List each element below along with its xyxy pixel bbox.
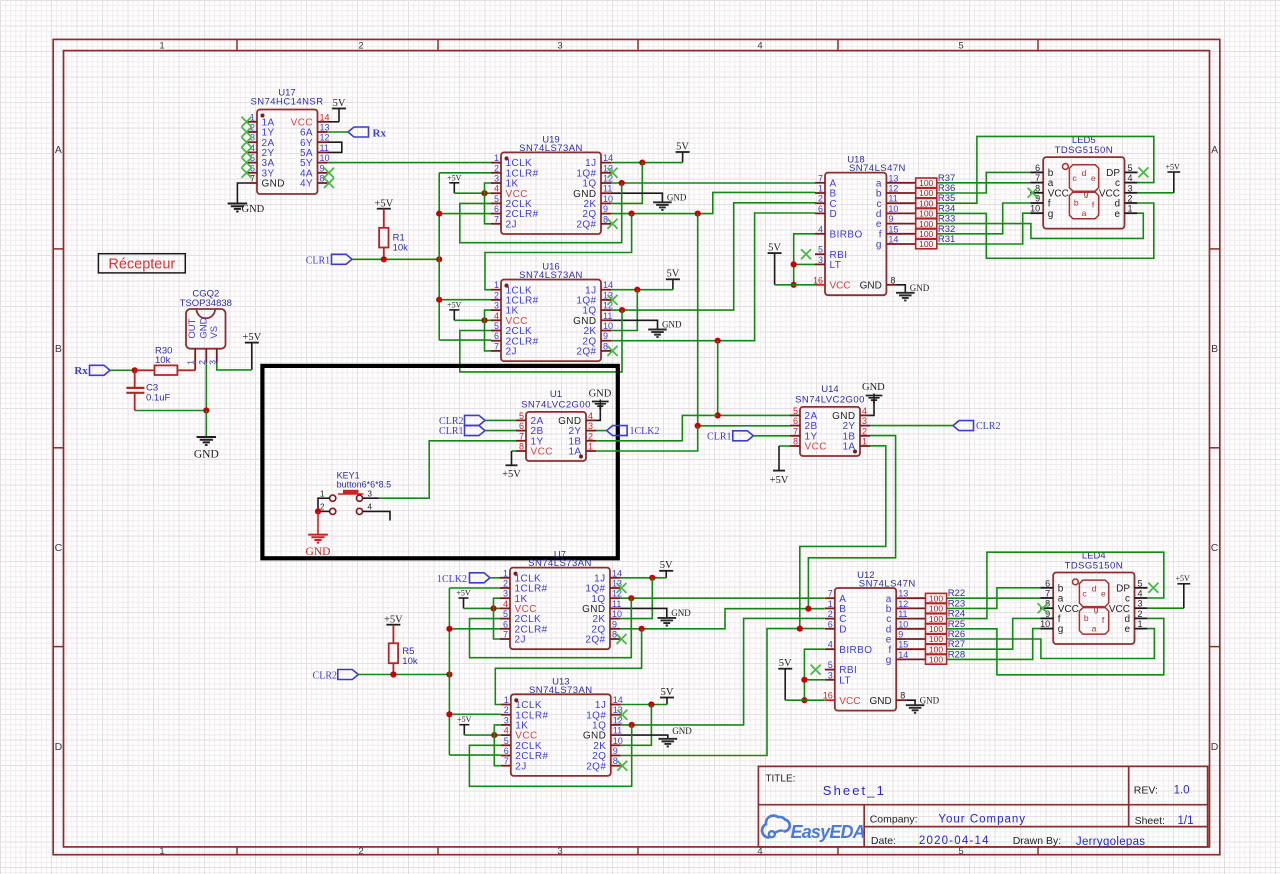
svg-text:10: 10 [1040,619,1050,629]
svg-text:GND: GND [860,280,882,291]
svg-text:6: 6 [818,204,823,214]
svg-text:14: 14 [888,235,898,245]
svg-text:Jerrygolepas: Jerrygolepas [1076,836,1145,848]
GND power flag U13 [658,726,692,746]
wire U18 BIRBO tie [794,234,815,285]
svg-text:5V: 5V [768,242,781,253]
svg-text:1/1: 1/1 [1178,815,1194,827]
junction U19 1Q [619,180,625,186]
no-connect X LED4 pin8 [1038,603,1048,613]
svg-text:10: 10 [612,609,622,619]
svg-text:3: 3 [504,715,509,725]
svg-text:Sheet:: Sheet: [1135,815,1165,827]
svg-text:15: 15 [898,640,908,650]
svg-text:0.1uF: 0.1uF [146,393,170,404]
wire U12 BIRBO tie [804,649,824,700]
svg-text:D: D [1211,741,1219,753]
svg-text:GND: GND [672,726,692,736]
svg-text:button6*6*8.5: button6*6*8.5 [337,480,392,490]
svg-text:SN74LVC2G00: SN74LVC2G00 [521,399,591,410]
junction U19 1J/2K [639,160,645,166]
svg-text:+5V: +5V [1175,574,1190,583]
svg-text:GND: GND [910,283,930,293]
svg-text:7: 7 [503,630,508,640]
svg-text:3: 3 [1138,599,1143,609]
svg-text:+5V: +5V [384,614,403,625]
svg-text:4: 4 [503,599,508,609]
IC U14 SN74LVC2G00 [790,384,870,456]
wire CLR1 to U19 pin2 [439,172,491,174]
wire segment c (R35-LED5) [937,136,1154,203]
wire segment e (R26-LED4) [947,629,1155,659]
svg-text:10: 10 [898,619,908,629]
wire segment e (R33-LED5) [937,213,1144,238]
wire KEY1 pin3 stub [363,497,379,499]
svg-text:Your Company: Your Company [938,813,1026,825]
no-connect X U7 pin 8 [617,634,627,644]
wire U18 VCC to 5V [775,284,815,286]
svg-text:1: 1 [828,599,833,609]
svg-text:3: 3 [862,416,867,426]
wire U13 1J to 5V [621,704,667,706]
svg-text:100: 100 [919,188,933,198]
svg-text:11: 11 [612,599,621,609]
svg-text:+5V: +5V [447,173,462,182]
svg-text:+5V: +5V [1165,162,1180,171]
wire CLR1 port to U1 pin6 [485,430,516,432]
wire segment b (R36-LED5) [937,172,1030,193]
svg-text:100: 100 [929,604,943,614]
svg-text:LT: LT [839,675,851,686]
svg-text:100: 100 [919,219,933,229]
junction U12 B [805,606,811,612]
svg-text:11: 11 [888,194,897,204]
svg-text:2: 2 [1138,609,1143,619]
port CLR1 (to U1 2B) [439,426,485,438]
svg-text:Company:: Company: [870,813,918,825]
svg-text:5: 5 [818,245,823,255]
svg-text:d: d [1092,584,1097,594]
svg-text:EasyEDA: EasyEDA [791,822,865,842]
wire U16 1J to 2K tie [611,290,637,331]
wire U13 2Q to U12 D [621,629,825,756]
IC U19 SN74LS73AN [491,134,613,234]
svg-text:1: 1 [818,184,823,194]
wire 1CLK2 port to U7 pin1 [490,577,500,579]
svg-text:BIRBO: BIRBO [839,645,872,656]
wire to U1 1A [596,426,698,451]
wire U12 GND pin8 [906,700,915,705]
svg-text:B: B [1211,343,1218,355]
svg-text:GND: GND [589,389,612,400]
junction KEY1 pin2 [315,508,321,514]
junction U12 LT [801,677,807,683]
IC U7 SN74LS73AN [500,550,622,650]
svg-text:VS: VS [209,326,220,339]
svg-text:5V: 5V [666,269,679,280]
wire junction to GND flag [205,411,207,438]
svg-text:2Q#: 2Q# [585,635,605,646]
svg-text:5V: 5V [676,141,689,152]
svg-text:7: 7 [1035,173,1040,183]
svg-text:100: 100 [929,634,943,644]
svg-text:CLR1: CLR1 [306,255,330,266]
wire +5V to VCC [464,734,501,736]
junction VCC [481,190,487,196]
junction U19 2Q a [629,211,635,217]
GND power flag U14 [862,382,885,402]
junction U18 VCC [791,282,797,288]
svg-text:4: 4 [757,41,762,52]
svg-text:d: d [1082,168,1087,178]
junction VCC [490,605,496,611]
IC U17 SN74HC14NSR [247,88,330,195]
svg-text:9: 9 [612,619,617,629]
wire U18 LT [794,263,815,265]
GND power flag U1 [589,389,612,409]
svg-text:6: 6 [494,204,499,214]
svg-text:6: 6 [1035,163,1040,173]
junction U7 1J/2K [649,575,655,581]
svg-text:9: 9 [603,331,608,341]
svg-text:Sheet_1: Sheet_1 [823,783,886,798]
no-connect X LED5 pin5 [1138,167,1148,177]
svg-text:1: 1 [494,153,499,163]
svg-text:U1: U1 [550,389,562,400]
svg-text:11: 11 [898,609,907,619]
port CLR1 (left) [306,254,352,266]
resistor R1 10k [379,209,408,260]
wire U1 pin4 to GND [596,407,600,421]
svg-text:Drawn By:: Drawn By: [1013,835,1061,847]
svg-text:6: 6 [494,331,499,341]
+5V power flag [447,300,462,320]
svg-text:1: 1 [320,490,325,499]
svg-text:VCC: VCC [531,447,553,458]
wire segment a (R22-LED4) [947,597,1041,599]
svg-text:7: 7 [828,589,833,599]
svg-text:c: c [1072,173,1077,183]
wire CLR1 row [352,258,439,260]
IC U13 SN74LS73AN [501,676,623,776]
svg-text:3: 3 [1128,183,1133,193]
svg-text:10k: 10k [155,355,171,366]
svg-text:GND: GND [862,382,885,393]
svg-text:e: e [1114,209,1120,220]
wire U7 2Q to U13 1CLK [495,629,641,705]
no-connect X U17 pin 2 [242,127,252,137]
junction VCC [481,317,487,323]
svg-text:3: 3 [503,589,508,599]
wire U18 GND pin8 [896,285,905,293]
no-connect X U13 pin 8 [617,761,627,771]
svg-text:6: 6 [828,619,833,629]
svg-text:GND: GND [671,608,691,618]
junction U16 2Q [715,338,721,344]
svg-text:Rx: Rx [74,365,88,377]
resistor R5 10k [389,625,418,675]
wire CLR1 net vertical [438,173,440,340]
port CLR1 (to U14 1Y) [707,431,753,443]
svg-text:g: g [1058,624,1064,635]
resistor R37 100 [896,173,955,188]
svg-text:GND: GND [242,204,265,215]
svg-text:1.0: 1.0 [1174,785,1190,797]
junction U18 LT [791,261,797,267]
GND power flag U12 [906,695,940,712]
svg-text:+5V: +5V [457,715,472,724]
+5V power flag above R5 [384,614,403,625]
junction CLR1 vertical [436,256,442,262]
svg-text:3: 3 [557,41,562,52]
EasyEDA logo [762,816,865,842]
svg-text:8: 8 [900,691,905,701]
svg-text:U14: U14 [821,384,838,395]
IC U12 SN74LS47N [823,570,916,711]
svg-text:4: 4 [818,224,823,234]
+5V power flag LED4 [1175,574,1190,608]
annotation box Recepteur [98,254,185,273]
svg-text:2Q#: 2Q# [576,219,596,230]
wire U17 pin10 to U19 pin1 [328,162,492,164]
svg-text:b: b [1074,198,1079,208]
svg-text:13: 13 [898,589,908,599]
svg-text:7: 7 [793,426,798,436]
svg-text:11: 11 [320,143,329,153]
junction U13 1Q [629,722,635,728]
no-connect X U17 pin 6 [242,168,252,178]
svg-text:3: 3 [818,255,823,265]
wire U17 pin7 to GND [237,183,247,204]
GND power flag U17 [228,204,265,216]
wire CLR1 to U16 pin2 [439,299,491,301]
svg-text:14: 14 [603,280,613,290]
resistor R28 100 [906,649,965,664]
title block [758,766,1207,848]
+5V power flag U1 [502,451,521,480]
svg-text:2020-04-14: 2020-04-14 [919,835,990,847]
wire LED5 VCC to +5V [1138,192,1174,194]
svg-text:SN74LVC2G00: SN74LVC2G00 [795,394,865,405]
junction U7 2Q [639,626,645,632]
junction CLR2/U13 pin2 [446,711,452,717]
svg-text:100: 100 [919,239,933,249]
wire segment g (R31-LED5) [937,213,1030,244]
svg-text:g: g [1094,604,1099,614]
svg-text:b: b [1084,613,1089,623]
IC CGQ2 TSOP34838 [180,288,232,364]
resistor R25 100 [906,619,965,634]
svg-text:B: B [55,343,62,355]
svg-text:BIRBO: BIRBO [830,229,863,240]
svg-text:A: A [1211,144,1218,156]
junction CLR2/U7 pin6 [446,626,452,632]
junction U7 1Q [628,595,634,601]
resistor R33 100 [896,214,955,229]
svg-text:8: 8 [890,275,895,285]
wire +5V to VCC [464,607,501,609]
svg-text:GND: GND [662,320,682,330]
svg-text:4: 4 [1128,173,1133,183]
wire U19 2Q down to U1/U14 [697,214,699,426]
svg-text:REV:: REV: [1134,785,1158,797]
wire U19 1J to 2K tie [611,163,642,204]
svg-text:GND: GND [262,179,285,190]
svg-text:1: 1 [159,41,164,52]
svg-text:2: 2 [358,41,363,52]
svg-text:CLR1: CLR1 [439,426,463,437]
svg-text:+5V: +5V [456,589,471,598]
junction R5/CLR2 [390,671,396,677]
no-connect X U17 pin 9 [324,168,334,178]
wire U13 1J to 2K tie [621,705,652,746]
svg-text:2J: 2J [515,635,526,646]
5V power flag U12 [778,658,792,700]
wire CLR2 to U7 pin6 [449,628,500,630]
svg-text:2J: 2J [506,347,517,358]
wire CLR2 port to U1 pin5 [485,419,516,421]
svg-text:VCC: VCC [830,280,851,291]
5V power flag at U17 [332,98,346,122]
junction U16 1J/2K [634,287,640,293]
svg-text:14: 14 [612,568,622,578]
port CLR2 (bottom left) [313,670,359,682]
resistor R22 100 [906,588,965,603]
svg-text:10: 10 [888,204,898,214]
svg-text:g: g [1048,209,1054,220]
no-connect X U13 pin 13 [617,710,627,720]
svg-text:7: 7 [494,214,499,224]
wire Rx to junction [110,369,143,371]
wire U16 GND pin11 [611,320,658,329]
svg-text:+5V: +5V [242,332,261,343]
wire U17 pin13 to Rx [328,131,349,133]
svg-text:GND: GND [306,546,331,558]
svg-text:2Q#: 2Q# [576,347,596,358]
svg-text:CLR2: CLR2 [976,421,1000,432]
svg-text:1: 1 [588,442,593,452]
svg-text:TITLE:: TITLE: [765,773,795,784]
wire U19 VCC tie 1K/2J [485,183,492,224]
svg-text:Récepteur: Récepteur [108,257,175,273]
svg-text:3: 3 [494,174,499,184]
svg-text:14: 14 [898,650,908,660]
svg-text:1A: 1A [568,447,581,458]
svg-text:100: 100 [919,209,933,219]
svg-text:5V: 5V [661,687,674,698]
svg-text:2Q#: 2Q# [586,761,606,772]
wire U19 2Q to U16 1CLK [485,214,632,290]
svg-text:6: 6 [793,416,798,426]
wire +5V to VCC [454,192,491,194]
svg-text:+5V: +5V [374,198,393,209]
resistor R31 100 [896,234,955,249]
resistor R32 100 [896,224,955,239]
svg-text:13: 13 [320,123,330,133]
svg-text:2: 2 [588,431,593,441]
wire U14 pin4 to GND [870,401,874,416]
wire segment f (R32-LED5) [937,203,1030,234]
wire U7 GND pin11 [620,608,667,618]
wire U19 1J to 5V [611,162,683,164]
no-connect X U12 RBI [811,665,821,675]
svg-text:2: 2 [494,163,499,173]
svg-text:LT: LT [830,260,842,271]
svg-text:7: 7 [519,431,524,441]
svg-text:e: e [1124,624,1130,635]
junction CLR2 vertical [446,671,452,677]
5V power flag U19 [676,141,690,162]
junction node Rx/C3/R30 [132,367,138,373]
IC U18 SN74LS47N [813,155,906,296]
svg-text:GND: GND [667,193,687,203]
svg-text:6: 6 [504,746,509,756]
junction C3/GND [203,407,209,413]
junction CLR1/U16 pin2 [436,297,442,303]
svg-text:D: D [55,741,63,753]
svg-text:100: 100 [929,593,943,603]
wire U16 1J to 5V [611,289,673,291]
wire CLR2 to U13 pin2 [449,713,500,715]
svg-text:2: 2 [862,426,867,436]
svg-text:100: 100 [919,178,933,188]
svg-text:3: 3 [494,301,499,311]
resistor R26 100 [906,629,965,644]
wire U14 2Y to CLR2 port [870,425,953,427]
+5V power flag above R1 [374,198,393,209]
svg-text:2: 2 [818,194,823,204]
svg-text:SN74HC14NSR: SN74HC14NSR [250,97,323,108]
wire U7 1J to 5V [620,577,666,579]
svg-text:4: 4 [368,503,373,512]
svg-text:7: 7 [250,174,255,184]
wire U16 1Q to U18 C [611,203,815,310]
svg-text:Date:: Date: [871,835,896,847]
svg-text:5V: 5V [333,98,346,109]
no-connect X U7 pin 13 [617,583,627,593]
svg-text:100: 100 [929,644,943,654]
svg-text:100: 100 [929,624,943,634]
svg-text:1: 1 [503,568,508,578]
resistor R36 100 [896,183,955,198]
5V power flag U18 [768,242,782,284]
wire U16 2Q down to U1/U14 [717,341,719,416]
svg-text:14: 14 [320,112,330,122]
svg-text:2: 2 [1128,194,1133,204]
svg-text:1CLK2: 1CLK2 [437,574,467,585]
junction U12 D [797,626,803,632]
wire CLR1 port to U14 pin7 [753,435,790,437]
GND power flag KEY1 (red) [306,535,331,558]
svg-text:1: 1 [186,360,196,365]
5V power flag U7 [659,560,673,578]
+5V power flag [447,173,462,193]
+5V power flag (receiver) [242,332,261,370]
svg-text:1CLK2: 1CLK2 [630,426,660,437]
svg-text:g: g [886,655,892,666]
wire CLR1 to U16 pin6 [439,339,491,341]
svg-text:D: D [839,624,847,635]
svg-text:2: 2 [828,609,833,619]
svg-text:5: 5 [519,411,524,421]
svg-text:GND: GND [194,449,219,461]
wire U12 VCC to 5V [785,699,824,701]
wire segment a (R37-LED5) [937,182,1030,184]
no-connect X U18 RBI [801,249,811,259]
wire CLR2 to U13 pin6 [449,754,500,756]
svg-text:10: 10 [320,153,330,163]
junction U12 VCC [801,697,807,703]
